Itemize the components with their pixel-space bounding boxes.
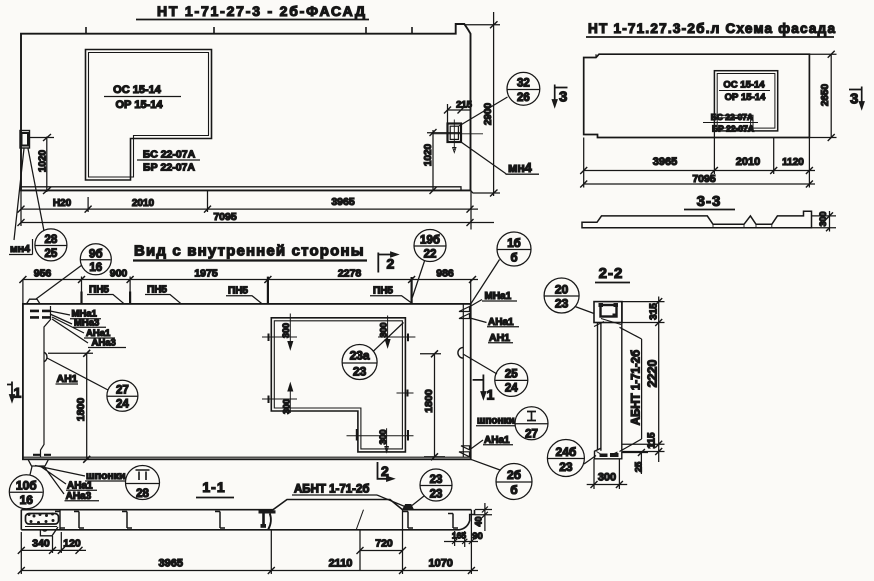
svg-text:АБНТ 1-71-2б: АБНТ 1-71-2б: [631, 350, 643, 425]
SCHEMA DRAWING: [552, 21, 864, 232]
svg-text:25: 25: [505, 369, 518, 381]
leader 2b: [471, 459, 500, 470]
svg-text:900: 900: [110, 268, 128, 280]
svg-text:ОС 15-14: ОС 15-14: [723, 80, 765, 91]
svg-text:300: 300: [379, 322, 389, 337]
rebar dots in box: [28, 513, 55, 525]
leader ABNT: [377, 495, 406, 507]
svg-text:1975: 1975: [194, 268, 218, 280]
svg-text:22: 22: [424, 249, 437, 261]
svg-text:25: 25: [634, 461, 645, 472]
dim 300 bottom of 2-2: [587, 459, 628, 489]
leaders top-right labels: [463, 300, 497, 375]
leader 9b circle: [36, 265, 82, 299]
callout circle 32/26: [507, 72, 540, 105]
svg-text:2: 2: [381, 463, 389, 479]
cross tick right edge mid: [397, 389, 414, 397]
panel bottom inner line: [21, 187, 461, 191]
svg-text:28: 28: [45, 234, 58, 246]
leader 24b: [584, 456, 596, 465]
svg-text:2010: 2010: [132, 198, 155, 209]
left end box: [59, 510, 61, 530]
dim 1800 left: [48, 353, 93, 459]
svg-text:2-2: 2-2: [599, 265, 624, 282]
callout circle 23a/23: [342, 345, 377, 380]
svg-text:АНа3: АНа3: [66, 491, 92, 502]
top dim line inner view: [23, 279, 478, 281]
svg-text:3965: 3965: [331, 196, 355, 208]
anchor dim 300 top-right of window: [378, 316, 415, 346]
bottom dim line 1 facade: [21, 208, 478, 210]
svg-text:БС 22-07А: БС 22-07А: [711, 112, 753, 122]
callout circle 27/24: [107, 380, 138, 411]
panel outline inner view: [23, 304, 471, 459]
svg-text:БР 22-07А: БР 22-07А: [143, 162, 195, 174]
leader 20/23: [575, 307, 594, 314]
svg-text:1: 1: [14, 385, 22, 401]
panel outline facade: [21, 24, 471, 190]
schema bottom dim line 2 7095: [584, 183, 815, 185]
svg-text:32: 32: [517, 78, 530, 90]
notch mark top-left: [596, 54, 598, 137]
anchor AH1 right: [458, 347, 463, 358]
svg-text:300: 300: [598, 472, 616, 484]
svg-text:2110: 2110: [329, 558, 353, 570]
svg-text:шпонки: шпонки: [477, 416, 515, 427]
anchor flag bottom-right: [459, 446, 470, 457]
svg-text:956: 956: [34, 268, 52, 280]
panel inner bottom edge: [23, 456, 471, 458]
leaders bottom-left: [35, 466, 85, 495]
svg-text:б: б: [510, 483, 517, 497]
joint mark at 79: [74, 512, 84, 529]
callout circle 19b/22: [414, 230, 446, 262]
leader to MH4 label right: [461, 142, 506, 174]
svg-text:ПН5: ПН5: [373, 286, 393, 297]
2-2 body: [598, 302, 622, 452]
dim 300 tab center: [385, 428, 388, 452]
dim 300 of 3-3: [812, 211, 837, 232]
schema bottom dim line 1: [584, 170, 815, 172]
svg-text:986: 986: [436, 268, 454, 280]
2-2 head box inner frame: [601, 305, 617, 317]
svg-text:НТ 1-71-27-3 - 2б-ФАСАД: НТ 1-71-27-3 - 2б-ФАСАД: [157, 3, 365, 19]
tick connectors to panel top: [23, 280, 471, 304]
joint mark at 60: [55, 512, 65, 529]
dark wedge at right rib foot: [403, 505, 414, 510]
dim 1020 right: [427, 130, 461, 190]
svg-text:НТ 1-71.27.3-2б.л Схема фасада: НТ 1-71.27.3-2б.л Схема фасада: [588, 21, 835, 36]
svg-text:1б: 1б: [507, 238, 521, 250]
svg-text:ПН5: ПН5: [89, 284, 109, 295]
svg-text:23: 23: [430, 474, 443, 486]
svg-text:1120: 1120: [782, 157, 804, 168]
leader 23a to corner: [373, 323, 404, 352]
dim 40: [475, 503, 493, 531]
svg-text:1020: 1020: [37, 149, 48, 172]
panel inner right edge: [462, 305, 464, 458]
tick marks on top edge: [86, 27, 412, 34]
bottom dim line 2 facade 7095: [21, 222, 494, 224]
svg-text:300: 300: [281, 323, 291, 338]
callout circle 2b/b mid: [496, 464, 532, 500]
window schema outer: [714, 71, 777, 131]
joint mark dark at 262: [259, 510, 276, 513]
leader AHa1 bottom right: [470, 440, 483, 450]
section 3-3 profile: [582, 211, 812, 227]
leader 10b: [30, 467, 32, 475]
svg-text:АБНТ 1-71-2б: АБНТ 1-71-2б: [294, 484, 369, 496]
svg-text:3965: 3965: [653, 156, 677, 168]
svg-text:23: 23: [353, 365, 367, 379]
svg-text:24: 24: [505, 383, 518, 395]
svg-text:мн4: мн4: [508, 161, 532, 175]
svg-text:1800: 1800: [423, 389, 435, 413]
svg-text:1800: 1800: [75, 398, 87, 422]
svg-text:7095: 7095: [692, 173, 716, 185]
dim line right of 2-2: [622, 297, 665, 463]
head box scribble: [594, 319, 621, 327]
svg-text:ОР 15-14: ОР 15-14: [725, 92, 766, 103]
anchor dim 300 top-left of window: [262, 314, 297, 348]
svg-text:АН1: АН1: [57, 373, 78, 385]
svg-text:2650: 2650: [820, 83, 831, 106]
svg-text:115: 115: [647, 432, 658, 449]
1-1 strip bottom edge: [21, 510, 474, 530]
svg-text:БР 22-07А: БР 22-07А: [712, 124, 754, 134]
svg-text:19б: 19б: [420, 235, 440, 247]
leader AH1 left to circle: [47, 358, 108, 390]
window schema inner: [717, 74, 775, 129]
svg-text:ПН5: ПН5: [228, 286, 248, 297]
svg-text:315: 315: [649, 303, 660, 320]
svg-text:300: 300: [378, 429, 388, 444]
window opening L-shape outer: [86, 50, 212, 181]
panel outline schema: [584, 54, 810, 137]
leaders to MHa/AHa labels: [50, 311, 88, 343]
svg-text:1-1: 1-1: [202, 479, 225, 495]
svg-text:МНа1: МНа1: [485, 291, 512, 302]
anchor AH1 left: [44, 352, 47, 361]
anchor dashes bottom-left: [33, 454, 51, 456]
callout circle 20/23: [544, 278, 579, 313]
svg-text:1: 1: [487, 387, 495, 403]
anchor flag top-right: [459, 307, 470, 319]
joint mark at 453: [448, 514, 458, 529]
leader 19b: [412, 261, 424, 298]
svg-text:ПН5: ПН5: [147, 284, 167, 295]
window opening inner view inner: [274, 321, 402, 449]
svg-text:120: 120: [63, 538, 81, 550]
svg-text:АН1: АН1: [489, 332, 510, 344]
callout circle II/28: [126, 466, 160, 500]
svg-text:40: 40: [474, 516, 484, 526]
svg-text:б: б: [510, 253, 517, 265]
svg-text:16: 16: [89, 262, 102, 274]
svg-text:АНа1: АНа1: [67, 480, 93, 491]
leader to circle 32/26: [459, 97, 508, 126]
svg-text:2220: 2220: [646, 360, 660, 388]
svg-text:27: 27: [116, 385, 129, 397]
svg-text:20: 20: [555, 283, 569, 297]
anchor dashes top-left: [30, 311, 50, 318]
svg-text:28: 28: [136, 488, 149, 500]
section marker 1 right: [473, 375, 484, 396]
section marker 3 right: [849, 87, 862, 106]
dim 215: [448, 104, 471, 123]
svg-text:25: 25: [45, 248, 58, 260]
2-2 head box outer: [594, 302, 622, 323]
svg-text:2б: 2б: [507, 468, 521, 482]
svg-text:9б: 9б: [89, 249, 103, 261]
section marker 1 left: [7, 382, 12, 399]
callout circle 23/23: [420, 469, 452, 501]
section marker 3 left: [555, 85, 568, 104]
svg-text:2278: 2278: [338, 268, 362, 280]
svg-text:3965: 3965: [159, 558, 183, 570]
window sub-panel step: [714, 115, 753, 131]
dim 2900: [464, 12, 500, 196]
joint mark at 408: [403, 512, 413, 529]
svg-text:Н20: Н20: [53, 198, 72, 209]
svg-text:3: 3: [850, 91, 858, 108]
svg-text:720: 720: [375, 538, 393, 550]
section marker 2 bottom: [378, 462, 391, 480]
svg-text:1020: 1020: [423, 143, 434, 166]
MIDDLE DRAWING: [7, 243, 495, 482]
svg-text:Вид с внутренней стороны: Вид с внутренней стороны: [134, 243, 364, 260]
svg-text:АНа1: АНа1: [484, 435, 510, 446]
2-2 bottom slab: [595, 448, 622, 459]
main dim line 3965/2110/1070: [21, 510, 478, 574]
ABNT underline + leaders: [620, 327, 642, 451]
svg-text:24: 24: [116, 399, 129, 411]
svg-text:10б: 10б: [16, 479, 37, 493]
callout circle 25/24: [495, 363, 528, 396]
svg-text:165: 165: [452, 531, 466, 541]
callout circle 1b/b: [497, 232, 531, 266]
svg-text:300: 300: [818, 211, 828, 226]
svg-text:90: 90: [472, 531, 483, 542]
dim 720: [360, 530, 403, 571]
svg-text:1070: 1070: [428, 558, 452, 570]
svg-text:340: 340: [32, 538, 50, 550]
svg-text:2010: 2010: [736, 156, 760, 168]
svg-text:мн4: мн4: [10, 243, 30, 255]
svg-text:ОС 15-14: ОС 15-14: [113, 84, 162, 96]
slab anchor blobs: [600, 454, 608, 458]
joint mark at 220: [215, 512, 225, 529]
svg-text:3: 3: [559, 89, 567, 106]
svg-text:7095: 7095: [213, 211, 237, 223]
section 3-3 joint ticks: [713, 224, 772, 227]
lifting loop bottom-left: [28, 459, 49, 466]
svg-text:300: 300: [282, 399, 292, 414]
MH4 block left: [20, 131, 30, 149]
dim 340/120: [21, 532, 86, 553]
leader 23/23: [412, 496, 424, 506]
callout circle 24b/23: [547, 440, 584, 477]
svg-text:215: 215: [456, 100, 473, 111]
callout circle 10b/16: [9, 475, 43, 509]
lifting loop top-left: [27, 299, 41, 304]
1-1 strip top edge with rib: [21, 500, 471, 510]
dims 165/90/40 right end: [444, 531, 478, 547]
dim 25: [622, 453, 648, 475]
svg-text:23а: 23а: [350, 349, 370, 363]
joint mark at 127: [122, 512, 132, 529]
svg-text:26: 26: [517, 92, 530, 104]
svg-text:3-3: 3-3: [697, 193, 722, 210]
1-1 left edge: [20, 510, 22, 530]
section marker 2 top: [378, 253, 393, 273]
dim 1800 right: [420, 354, 445, 457]
svg-text:23: 23: [430, 489, 443, 501]
callout circle 28/25: [35, 229, 67, 261]
panel inner left edge: [41, 306, 51, 457]
svg-text:АНа1: АНа1: [488, 317, 514, 328]
window opening L-shape inner: [89, 53, 209, 178]
diagonal joint under rib: [356, 510, 363, 530]
svg-text:ОР 15-14: ОР 15-14: [115, 99, 163, 111]
MH4 block right: [448, 124, 462, 143]
SECTION 2-2: [544, 265, 664, 489]
svg-text:2: 2: [387, 256, 395, 272]
anchor channel in box: [26, 514, 59, 525]
dim 2650: [809, 54, 836, 137]
cross line through tab: [347, 435, 414, 437]
callout circle I/27: [515, 407, 548, 440]
svg-text:16: 16: [20, 493, 34, 507]
dim 1020 left facade: [30, 137, 54, 193]
SECTION 1-1: [18, 469, 492, 574]
hanging tab below box: [40, 527, 58, 536]
FACADE DRAWING: [9, 3, 540, 261]
svg-text:27: 27: [525, 429, 538, 441]
leader lines MH4 left: [14, 149, 44, 241]
svg-text:23: 23: [555, 297, 569, 311]
svg-text:БС 22-07А: БС 22-07А: [143, 149, 196, 161]
anchor dim 300 lower-left of window: [262, 385, 297, 413]
leader 1b: [471, 260, 500, 304]
window opening inner view outer: [271, 318, 405, 452]
svg-text:23: 23: [559, 460, 573, 474]
svg-text:АНа3: АНа3: [92, 338, 116, 349]
callout circle 9b/16: [80, 244, 111, 275]
head box corner dots: [599, 303, 604, 307]
svg-text:24б: 24б: [556, 445, 577, 459]
